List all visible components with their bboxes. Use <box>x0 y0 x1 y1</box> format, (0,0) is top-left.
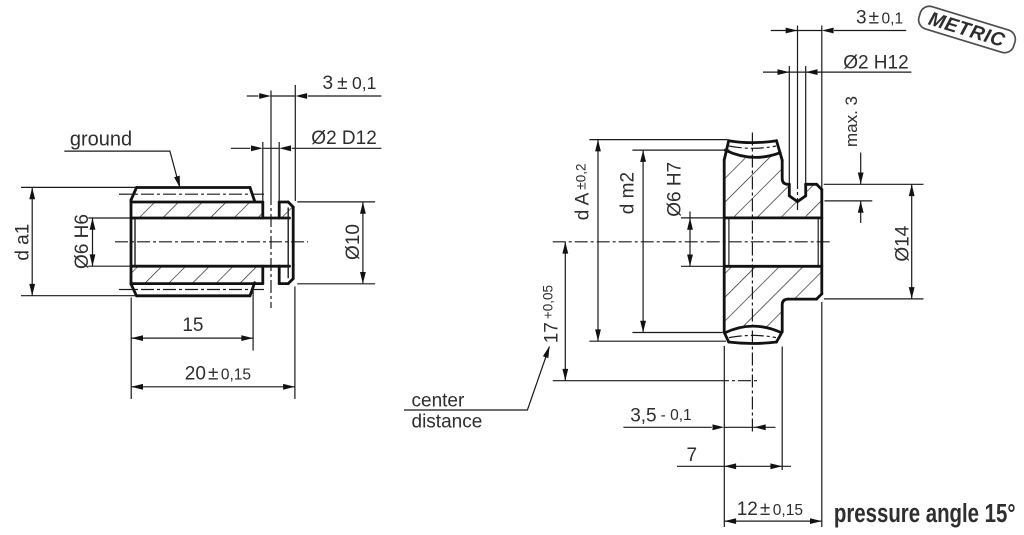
svg-text:20±0,15: 20±0,15 <box>185 364 251 385</box>
svg-text:Ø2 H12: Ø2 H12 <box>843 53 908 74</box>
svg-text:center: center <box>412 390 465 411</box>
svg-text:3±0,1: 3±0,1 <box>323 73 377 94</box>
svg-text:Ø6 H7: Ø6 H7 <box>665 162 686 217</box>
svg-text:d a1: d a1 <box>13 224 34 261</box>
svg-text:distance: distance <box>412 411 483 432</box>
svg-text:12±0,15: 12±0,15 <box>737 499 803 520</box>
svg-text:d A±0,2: d A±0,2 <box>573 164 594 221</box>
svg-text:Ø14: Ø14 <box>893 225 914 261</box>
svg-text:7: 7 <box>687 445 698 466</box>
svg-text:3±0,1: 3±0,1 <box>856 8 903 29</box>
svg-text:METRIC: METRIC <box>926 8 1008 52</box>
svg-text:3,5- 0,1: 3,5- 0,1 <box>630 405 691 426</box>
svg-text:d m2: d m2 <box>618 172 639 214</box>
svg-text:17+0,05: 17+0,05 <box>541 285 563 343</box>
svg-text:Ø2 D12: Ø2 D12 <box>311 128 376 149</box>
svg-text:Ø10: Ø10 <box>343 224 364 260</box>
svg-text:Ø6 H6: Ø6 H6 <box>72 214 93 269</box>
svg-text:ground: ground <box>70 129 132 151</box>
svg-text:pressure angle 15°: pressure angle 15° <box>834 499 1016 528</box>
svg-text:15: 15 <box>182 315 203 336</box>
svg-text:max. 3: max. 3 <box>842 96 861 147</box>
